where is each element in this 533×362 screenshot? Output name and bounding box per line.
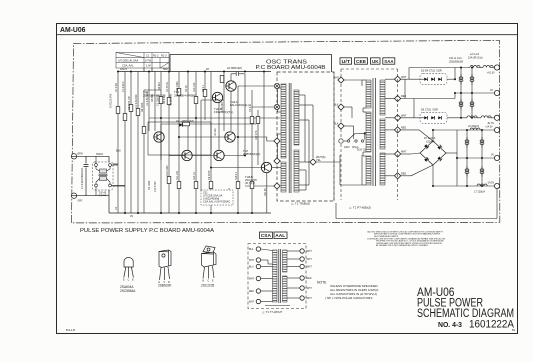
svg-text:WHT: WHT [334, 77, 340, 80]
svg-text:WHT: WHT [307, 251, 313, 253]
svg-text:AM-U06: AM-U06 [60, 27, 86, 34]
svg-text:WHT: WHT [249, 302, 255, 304]
svg-text:△: T1 T8(B)(J): △: T1 T8(B)(J) [291, 202, 310, 206]
svg-text:0V: 0V [491, 154, 494, 157]
svg-text:SW04: SW04 [96, 153, 103, 156]
svg-text:D5 C7(J) I 25R: D5 C7(J) I 25R [421, 109, 438, 112]
svg-text:C6 470P: C6 470P [208, 170, 211, 180]
svg-text:R10 100K: R10 100K [166, 165, 169, 176]
svg-text:-14.5V: -14.5V [487, 182, 494, 185]
svg-text:L7 220μH: L7 220μH [474, 191, 485, 194]
svg-text:BLK: BLK [249, 249, 254, 251]
svg-text:CSA,AAL:0.0047/250AC: CSA,AAL:0.0047/250AC [203, 201, 230, 204]
svg-text:U/T,CEE,UK,SAA: U/T,CEE,UK,SAA [118, 58, 138, 62]
svg-text:C7 0.01: C7 0.01 [249, 103, 252, 112]
svg-text:C3 100/10: C3 100/10 [157, 94, 160, 106]
svg-text:R14 1K: R14 1K [193, 172, 196, 180]
svg-text:YEL: YEL [316, 158, 321, 162]
svg-text:2SC5564-NP(BP): 2SC5564-NP(BP) [174, 94, 196, 98]
svg-text:R21 82: R21 82 [264, 188, 267, 196]
svg-text:C12 470P: C12 470P [154, 181, 157, 192]
svg-text:2SB682(K)(F): 2SB682(K)(F) [243, 152, 260, 156]
svg-text:WHT: WHT [307, 267, 313, 269]
svg-text:R17 27K: R17 27K [255, 130, 258, 140]
svg-text:△: T1 P7-8(B)(J): △: T1 P7-8(B)(J) [349, 206, 371, 210]
svg-text:WHT: WHT [401, 151, 407, 154]
svg-text:(DS)(BS)(W): (DS)(BS)(W) [449, 61, 463, 64]
svg-text:56074: 56074 [163, 68, 171, 71]
svg-text:BLK: BLK [116, 149, 121, 153]
svg-text:1S2466: 1S2466 [426, 141, 435, 144]
svg-text:RED: RED [401, 95, 406, 98]
svg-text:R16 4.7: R16 4.7 [235, 171, 238, 180]
svg-text:R1-3: R1-3 [161, 53, 167, 57]
svg-text:2SC5564A: 2SC5564A [120, 289, 136, 293]
svg-text:(L)(ww): (L)(ww) [99, 194, 107, 197]
svg-text:RED: RED [401, 127, 406, 130]
svg-text:B1: B1 [512, 328, 516, 332]
svg-text:240V: 240V [344, 146, 350, 149]
svg-text:SAA: SAA [384, 59, 394, 65]
svg-text:R1-2: R1-2 [153, 53, 159, 57]
svg-text:3.3K/400: 3.3K/400 [221, 102, 224, 112]
svg-text:R2 100K: R2 100K [148, 180, 151, 190]
svg-text:R11 12K: R11 12K [176, 170, 179, 180]
svg-text:RED: RED [249, 291, 254, 293]
svg-text:UK: UK [372, 59, 379, 65]
svg-text:WHT: WHT [307, 259, 313, 261]
svg-text:0V: 0V [490, 89, 493, 92]
svg-text:R3 470K 1W: R3 470K 1W [128, 96, 131, 110]
svg-text:2SB632K: 2SB632K [158, 284, 172, 288]
svg-text:LR 080/V(M): LR 080/V(M) [227, 66, 242, 70]
svg-text:AAL: AAL [275, 233, 285, 239]
svg-text:R1 2.2M: R1 2.2M [115, 83, 118, 92]
svg-text:C5 0.1: C5 0.1 [202, 84, 205, 92]
svg-text:WHT: WHT [249, 279, 255, 281]
svg-text:WHT: WHT [401, 114, 407, 117]
svg-text:△: T1 T7-WOUT: △: T1 T7-WOUT [262, 310, 283, 314]
svg-text:BLK: BLK [334, 123, 339, 126]
svg-text:CSA: CSA [261, 233, 272, 239]
svg-text:BLK: BLK [334, 104, 339, 107]
svg-text:B-9-1-B: B-9-1-B [66, 328, 75, 332]
svg-text:R8 100K: R8 100K [141, 102, 144, 112]
svg-text:PULSE POWER SUPPLY P.C BOARD A: PULSE POWER SUPPLY P.C BOARD AMU-6004A [80, 228, 214, 234]
svg-text:BLU: BLU [249, 267, 254, 269]
svg-text:+61.5V: +61.5V [487, 72, 495, 75]
svg-text:FALC230(K)(L): FALC230(K)(L) [230, 103, 249, 107]
svg-text:R12 150K: R12 150K [176, 81, 179, 92]
svg-text:U/T: U/T [342, 59, 351, 65]
svg-text:B 0711B 5RK: B 0711B 5RK [110, 93, 113, 108]
svg-text:NO. 4-3: NO. 4-3 [438, 320, 462, 329]
svg-text:R5 56K: R5 56K [151, 94, 154, 102]
svg-text:BRN: BRN [78, 152, 83, 155]
svg-text:RED: RED [401, 172, 406, 175]
svg-text:RED: RED [307, 278, 312, 280]
svg-text:(R,Y)(J): (R,Y)(J) [245, 181, 255, 185]
svg-text:C1: C1 [146, 53, 150, 57]
svg-text:WHT: WHT [307, 298, 313, 300]
svg-text:C4 47/16: C4 47/16 [166, 82, 169, 92]
svg-text:D1-D4 C7(J) I 25R: D1-D4 C7(J) I 25R [421, 70, 442, 73]
svg-text:CEE: CEE [356, 59, 367, 65]
svg-text:R9 3.3K: R9 3.3K [163, 95, 166, 104]
svg-text:LR 3.3K/400: LR 3.3K/400 [135, 94, 138, 108]
svg-text:D1 1S1588: D1 1S1588 [170, 93, 173, 106]
svg-text:1601222A: 1601222A [469, 319, 515, 331]
svg-text:WHT: WHT [249, 260, 255, 262]
svg-text:( NP ): NON-POLAR CAPACITORS: ( NP ): NON-POLAR CAPACITORS [325, 296, 372, 300]
svg-text:R4 (Z): R4 (Z) [185, 85, 188, 92]
svg-text:GRY: GRY [78, 200, 84, 203]
svg-text:10A-3R (Cyl): 10A-3R (Cyl) [468, 57, 483, 60]
svg-text:R13 10K: R13 10K [193, 82, 196, 92]
svg-text:+14.5V: +14.5V [485, 126, 493, 129]
svg-text:0.7W: 0.7W [145, 58, 152, 62]
svg-text:LR +08P/V(M): LR +08P/V(M) [176, 119, 194, 123]
svg-text:L8 10K: L8 10K [214, 128, 217, 136]
svg-text:WHT: WHT [307, 288, 313, 290]
svg-text:P.C BOARD AMU-6004B: P.C BOARD AMU-6004B [256, 65, 327, 71]
svg-text:LR 3.3K/400: LR 3.3K/400 [146, 92, 149, 106]
svg-text:AT REPAIR ONLY RECOMMENDED WIT: AT REPAIR ONLY RECOMMENDED WITH COMPANY [376, 244, 429, 247]
svg-text:2SC2235: 2SC2235 [201, 284, 215, 288]
svg-text:0V: 0V [130, 215, 133, 218]
svg-text:C1 0.01M: C1 0.01M [122, 82, 125, 92]
svg-text:L6 220μH: L6 220μH [468, 125, 479, 128]
svg-text:C1 0.022/250AC(M): C1 0.022/250AC(M) [81, 168, 84, 189]
svg-text:NOTE: NOTE [317, 281, 327, 285]
svg-text:R6 82K: R6 82K [158, 82, 161, 90]
svg-text:1 W: 1 W [146, 63, 151, 67]
svg-text:CSA, AAL: CSA, AAL [122, 63, 134, 67]
svg-text:10074: 10074 [120, 68, 128, 71]
svg-text:WHT: WHT [401, 76, 407, 79]
